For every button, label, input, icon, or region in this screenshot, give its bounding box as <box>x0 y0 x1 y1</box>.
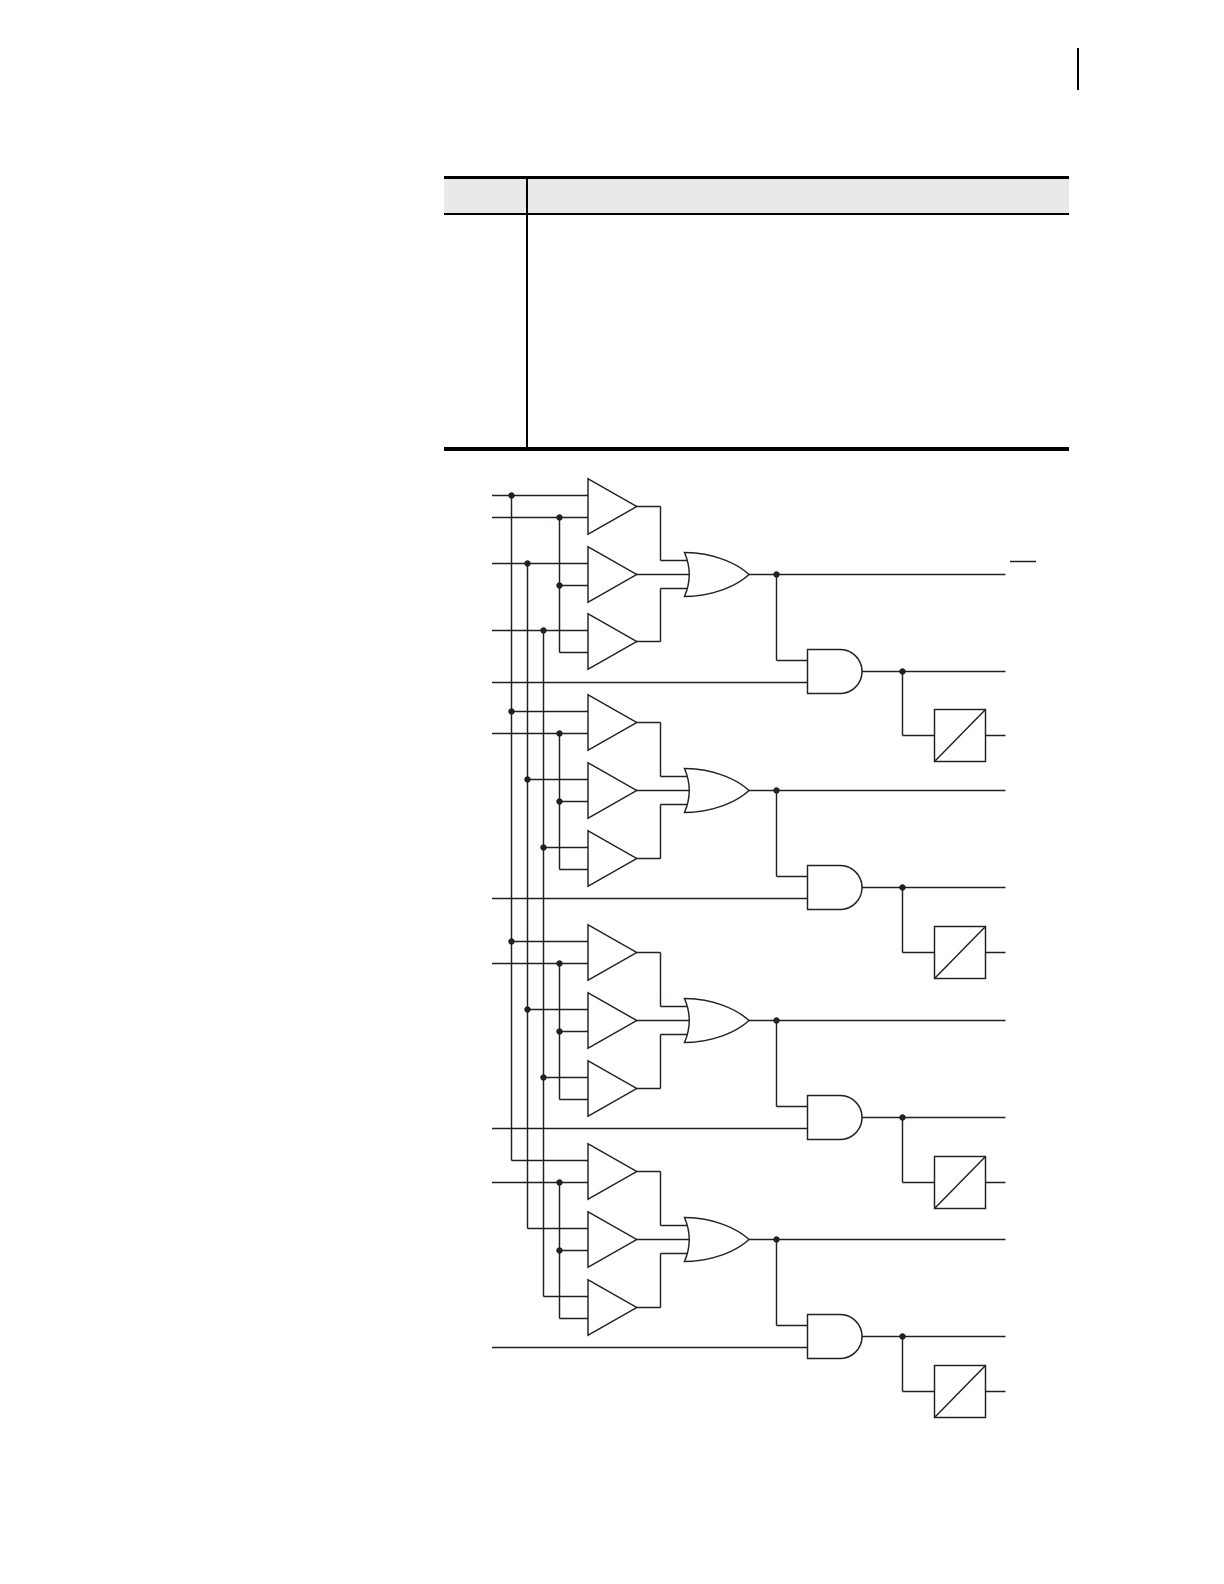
wire group4 buffer-A input-2 from left edge <box>492 1182 588 1184</box>
junction group2 or-gate output node <box>773 787 779 793</box>
wire group1 buffer-C output to or-gate <box>637 641 661 643</box>
wire group2 buffer-A input-2 from left edge <box>492 733 588 735</box>
wire group2 and-gate lower input from left edge <box>492 898 808 900</box>
wire group3 buffer-B input-1 from bus column B <box>528 1009 589 1011</box>
table header fill <box>444 179 1069 213</box>
junction group4 and-gate output node <box>899 1333 905 1339</box>
wire group3 or-gate output net <box>749 1020 1006 1022</box>
wire group2 or-gate output net <box>749 790 1006 792</box>
buffer group2 C <box>588 831 637 886</box>
or-gate group1 <box>685 553 750 597</box>
wire group3 buffer-C input-1 from bus column C <box>544 1077 589 1079</box>
wire group2 buffer-B input-2 from bus column D <box>560 801 589 803</box>
junction group1 column C tap <box>540 627 546 633</box>
buffer group4 B <box>588 1212 637 1267</box>
wire group2 limiter output <box>986 952 1006 954</box>
wire group1 limiter output <box>986 735 1006 737</box>
junction group3 column C tap <box>540 1074 546 1080</box>
wire group1 buffer-A input-2 from left edge <box>492 517 588 519</box>
wire group4 buffer-B input-2 from bus column D <box>560 1250 589 1252</box>
wire group2 buffer-A output to or-gate <box>637 722 661 724</box>
buffer group2 A <box>588 695 637 750</box>
limiter box group3 <box>935 1157 986 1209</box>
wire group1 and-gate lower input from left edge <box>492 682 808 684</box>
junction group1 column D top tap <box>556 514 562 520</box>
junction group2 column D middle tap <box>556 798 562 804</box>
table bottom border <box>444 447 1069 451</box>
wire group1 buffer-B output to or-gate <box>637 574 696 576</box>
junction group3 and-gate output node <box>899 1114 905 1120</box>
wire group2 buffer-C input-1 from bus column C <box>544 847 589 849</box>
wire group4 or-gate output net <box>749 1239 1006 1241</box>
or-gate group3 <box>685 999 750 1043</box>
junction group4 column D top tap <box>556 1179 562 1185</box>
junction group1 column A tap <box>508 492 514 498</box>
buffer group3 B <box>588 993 637 1048</box>
junction group2 column C tap <box>540 844 546 850</box>
buffer group1 C <box>588 614 637 669</box>
bus column B <box>527 564 529 1229</box>
wire group2 buffer-C input-2 from bus column D <box>560 869 589 871</box>
bus column C <box>543 631 545 1297</box>
wire group2 buffer-A input-1 from bus column A <box>512 711 589 713</box>
stray horizontal segment top right <box>1010 561 1036 563</box>
wire group1 and-gate output net <box>862 671 1006 673</box>
wire group2 and-gate output net <box>862 887 1006 889</box>
junction group3 column B tap <box>524 1006 530 1012</box>
buffer group1 B <box>588 547 637 602</box>
wire group3 buffer-B input-2 from bus column D <box>560 1031 589 1033</box>
limiter box group2 <box>935 927 986 979</box>
limiter box group1 <box>935 710 986 762</box>
wire group3 buffer-A input-1 from bus column A <box>512 941 589 943</box>
wire group2 buffer-B input-1 from bus column B <box>528 779 589 781</box>
bus column D segment group1 <box>559 518 561 653</box>
junction group2 column A tap <box>508 708 514 714</box>
or-gate group4 <box>685 1218 750 1262</box>
wire group1 buffer-A output to or-gate <box>637 506 661 508</box>
junction group2 and-gate output node <box>899 884 905 890</box>
buffer group4 A <box>588 1144 637 1199</box>
junction group3 column D middle tap <box>556 1028 562 1034</box>
table header bottom rule <box>444 213 1069 215</box>
junction group1 column B tap <box>524 560 530 566</box>
and-gate group2 <box>808 866 863 910</box>
junction group4 or-gate output node <box>773 1236 779 1242</box>
wire group3 buffer-A output to or-gate <box>637 952 661 954</box>
junction group3 column D top tap <box>556 960 562 966</box>
bus column A <box>511 496 513 1161</box>
wire group3 limiter output <box>986 1182 1006 1184</box>
buffer group3 C <box>588 1061 637 1116</box>
wire group3 buffer-C output to or-gate <box>637 1088 661 1090</box>
junction group3 column A tap <box>508 938 514 944</box>
junction group1 column D middle tap <box>556 582 562 588</box>
wire group3 buffer-C input-2 from bus column D <box>560 1099 589 1101</box>
and-gate group4 <box>808 1315 863 1359</box>
bus column D segment group4 <box>559 1183 561 1319</box>
and-gate group1 <box>808 650 863 694</box>
bus column D segment group3 <box>559 964 561 1100</box>
limiter box group4 <box>935 1366 986 1418</box>
wire group4 buffer-A output to or-gate <box>637 1171 661 1173</box>
wire group4 buffer-A input-1 from bus column A <box>512 1160 589 1162</box>
junction group2 column B tap <box>524 776 530 782</box>
buffer group3 A <box>588 925 637 980</box>
wire group4 buffer-C input-2 from bus column D <box>560 1318 589 1320</box>
wire group4 and-gate lower input from left edge <box>492 1347 808 1349</box>
wire group1 buffer-A input-1 from left edge <box>492 495 588 497</box>
junction group1 and-gate output node <box>899 668 905 674</box>
wire group2 buffer-B output to or-gate <box>637 790 696 792</box>
wire group4 and-gate output net <box>862 1336 1006 1338</box>
wire group3 and-gate lower input from left edge <box>492 1128 808 1130</box>
wire group3 and-gate output net <box>862 1117 1006 1119</box>
wire group4 buffer-C output to or-gate <box>637 1307 661 1309</box>
or-gate group2 <box>685 769 750 813</box>
table top border <box>444 176 1069 180</box>
bus column D segment group2 <box>559 734 561 870</box>
wire group1 buffer-B input-1 from left edge <box>492 563 588 565</box>
wire group4 limiter output <box>986 1391 1006 1393</box>
buffer group1 A <box>588 479 637 534</box>
junction group1 or-gate output node <box>773 571 779 577</box>
buffer group4 C <box>588 1280 637 1335</box>
wire group4 buffer-B output to or-gate <box>637 1239 696 1241</box>
wire group1 buffer-B input-2 from bus column D <box>560 585 589 587</box>
wire group3 buffer-B output to or-gate <box>637 1020 696 1022</box>
wire group1 or-gate output net <box>749 574 1006 576</box>
junction group2 column D top tap <box>556 730 562 736</box>
wire group1 buffer-C input-1 from left edge <box>492 630 588 632</box>
page change bar top right <box>1077 48 1079 90</box>
junction group4 column D middle tap <box>556 1247 562 1253</box>
wire group3 buffer-A input-2 from left edge <box>492 963 588 965</box>
wire group4 buffer-C input-1 from bus column C <box>544 1296 589 1298</box>
table column divider <box>526 179 528 447</box>
junction group3 or-gate output node <box>773 1017 779 1023</box>
wire group2 buffer-C output to or-gate <box>637 858 661 860</box>
buffer group2 B <box>588 763 637 818</box>
wire group1 buffer-C input-2 from bus column D <box>560 652 589 654</box>
wire group4 buffer-B input-1 from bus column B <box>528 1228 589 1230</box>
and-gate group3 <box>808 1096 863 1140</box>
